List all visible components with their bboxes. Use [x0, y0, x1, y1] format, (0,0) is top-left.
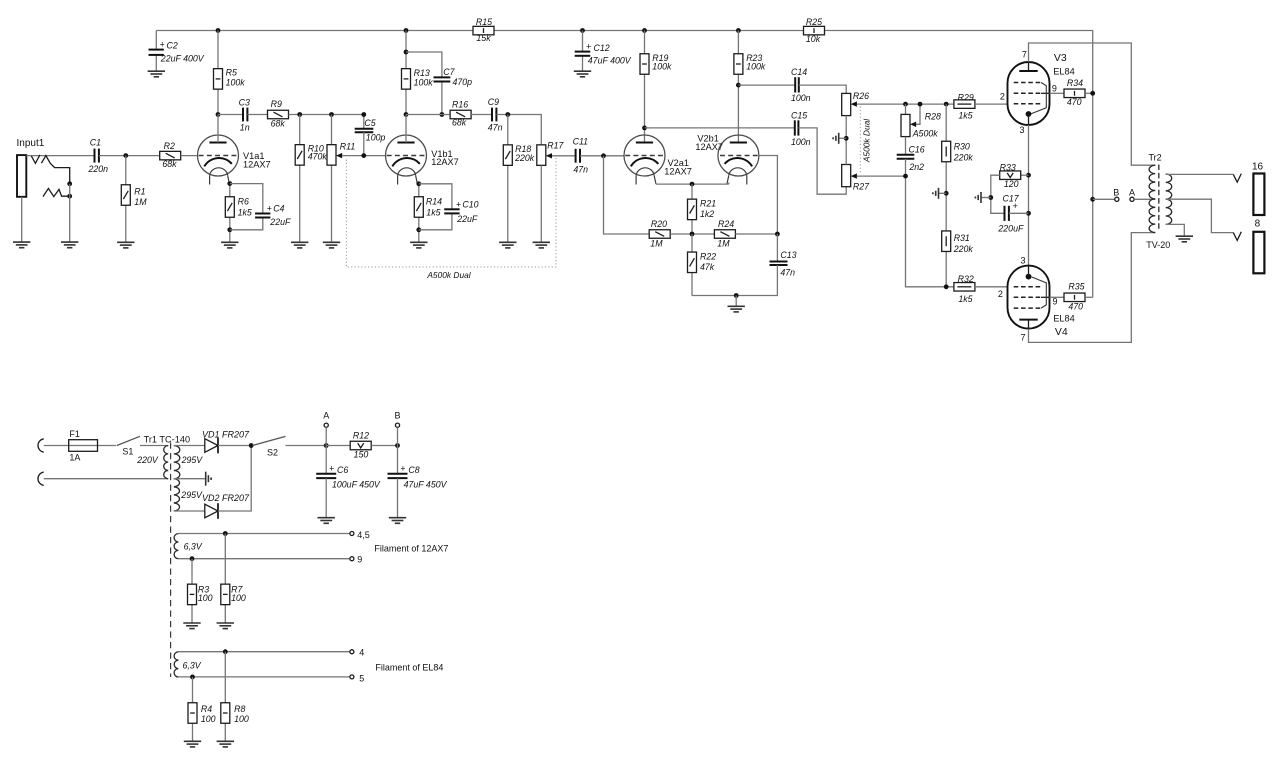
svg-text:A500k Dual: A500k Dual	[862, 118, 872, 163]
wire R13 bottom to R16	[406, 114, 450, 116]
node R7 tap	[223, 531, 228, 536]
svg-text:R27: R27	[853, 181, 870, 191]
node R3 tap	[190, 556, 195, 561]
wire input top	[26, 155, 94, 157]
resistor R15	[473, 26, 494, 34]
svg-text:B: B	[394, 411, 400, 421]
transformer Tr1 HV winding 295V upper	[174, 446, 180, 479]
node B+ rail R13 branch	[404, 28, 409, 33]
terminal B psu	[395, 423, 399, 427]
svg-text:V4: V4	[1055, 326, 1068, 338]
wire C3 left lead	[218, 114, 243, 116]
wire R11 vertical	[331, 115, 333, 243]
wire plug to fuse to S1	[44, 445, 117, 447]
ground under R14	[410, 242, 427, 248]
transformer Tr1 filament winding EL84	[174, 652, 178, 677]
terminal 5	[350, 675, 354, 679]
ground under R6	[221, 242, 238, 248]
wire R12 to B node	[371, 445, 397, 447]
wire common cathode bus	[656, 183, 729, 185]
ground under C8	[389, 518, 406, 524]
svg-text:220k: 220k	[953, 244, 974, 254]
svg-text:A: A	[323, 411, 329, 421]
terminal A psu	[324, 423, 328, 427]
wire R19 vertical to plate	[644, 31, 646, 143]
capacitor C16	[897, 154, 915, 156]
svg-text:+: +	[400, 464, 405, 474]
wiper arrow R27	[851, 173, 857, 178]
terminal 9	[350, 557, 354, 561]
resistor R35	[1064, 293, 1085, 302]
svg-text:R25: R25	[806, 17, 822, 27]
ground under R10	[291, 242, 308, 248]
svg-text:9: 9	[1053, 297, 1058, 307]
terminal 4	[350, 650, 354, 654]
transformer Tr1 primary winding 220V	[164, 446, 169, 479]
dotted gang link R11-R17 A500k Dual	[346, 157, 556, 267]
svg-text:7: 7	[1021, 332, 1026, 342]
wire secondary mid tap to 8 ohm output	[1166, 199, 1234, 232]
svg-text:47uF 450V: 47uF 450V	[404, 480, 448, 490]
fuse F1	[69, 440, 98, 452]
ground left of divider	[933, 188, 939, 199]
svg-text:7: 7	[1022, 49, 1027, 59]
wire R32 to V4 grid	[975, 286, 1008, 288]
dotted gang link R26-R27	[859, 107, 861, 175]
wire C14 to R26 top	[799, 85, 846, 93]
wire V3 plate to Tr2 primary top	[1029, 43, 1156, 165]
capacitor C17	[1004, 206, 1006, 221]
resistor R31	[942, 231, 951, 252]
svg-text:C15: C15	[791, 111, 807, 121]
wire rail to B terminal	[1093, 198, 1115, 200]
diode VD1	[205, 439, 218, 453]
terminal 4,5	[350, 532, 354, 536]
svg-text:9: 9	[1052, 84, 1057, 94]
svg-text:3: 3	[1020, 125, 1025, 135]
node jack dot lower	[67, 194, 72, 199]
svg-text:12AX7: 12AX7	[243, 159, 271, 169]
wire secondary bottom to ground	[1166, 224, 1185, 236]
svg-text:150: 150	[354, 449, 369, 459]
wire ground tap	[839, 137, 847, 139]
svg-text:68k: 68k	[162, 159, 177, 169]
svg-text:47n: 47n	[780, 268, 795, 278]
svg-text:22uF: 22uF	[269, 217, 291, 227]
node R4 tap	[190, 675, 195, 680]
capacitor C7	[434, 76, 451, 78]
wire R2 to V1a1 grid	[181, 155, 198, 157]
resistor R7	[221, 584, 230, 605]
node C16 / R27 wiper	[903, 174, 908, 179]
wire C4 loop	[230, 184, 263, 214]
resistor R4	[188, 703, 197, 724]
wire B+ rail right segment with drop to R35	[824, 31, 1092, 298]
svg-text:+: +	[160, 40, 165, 50]
node A junction	[324, 443, 329, 448]
svg-text:47uF 400V: 47uF 400V	[588, 56, 632, 66]
resistor R23	[734, 54, 743, 75]
svg-text:470p: 470p	[453, 77, 473, 87]
svg-text:R13: R13	[414, 68, 430, 78]
svg-text:C16: C16	[909, 145, 925, 155]
svg-text:1k5: 1k5	[426, 208, 440, 218]
switch S2	[253, 436, 286, 445]
wire R33 left to C17 left leg	[991, 175, 1005, 213]
wire B+ rail left segment	[156, 30, 473, 32]
wire R20 to node	[670, 233, 714, 235]
terminal B	[1115, 197, 1119, 201]
svg-text:+: +	[1013, 201, 1018, 211]
capacitor C9	[491, 108, 493, 122]
svg-text:R12: R12	[353, 431, 369, 441]
pentode V4 (mirrored)	[1008, 266, 1050, 329]
capacitor C6	[316, 473, 336, 475]
capacitor C4	[255, 213, 270, 215]
wire R21 vertical	[691, 184, 693, 234]
svg-text:12AX7: 12AX7	[695, 142, 723, 152]
svg-text:+: +	[586, 42, 591, 52]
svg-text:1n: 1n	[240, 122, 250, 132]
svg-text:2n2: 2n2	[908, 162, 924, 172]
transformer Tr1 core	[170, 443, 172, 678]
svg-text:R21: R21	[700, 198, 716, 208]
svg-text:R34: R34	[1067, 78, 1083, 88]
resistor R1	[121, 185, 130, 206]
wire R35 to rail end	[1085, 296, 1093, 298]
svg-text:B: B	[1113, 187, 1119, 197]
resistor R29	[954, 100, 975, 109]
svg-text:1M: 1M	[650, 239, 663, 249]
svg-text:100n: 100n	[791, 137, 811, 147]
svg-text:VD1 FR207: VD1 FR207	[202, 429, 250, 439]
ground under C2	[148, 71, 165, 77]
wire secondary top to 16 ohm output	[1166, 173, 1234, 175]
resistor R22	[688, 252, 697, 273]
pentode V3	[1008, 62, 1050, 125]
svg-text:1k5: 1k5	[958, 111, 972, 121]
wire C7 bottom loop	[441, 82, 443, 115]
resistor R24	[714, 230, 735, 239]
transformer Tr2 secondary winding	[1166, 174, 1172, 224]
capacitor C3	[242, 108, 244, 122]
wire V1a1 cathode to node	[229, 182, 231, 242]
capacitor C8	[388, 473, 408, 475]
node cathode V1a1	[227, 181, 232, 186]
svg-text:220uF: 220uF	[997, 224, 1024, 234]
svg-text:100p: 100p	[366, 133, 386, 143]
svg-text:R30: R30	[954, 142, 970, 152]
capacitor C10	[444, 208, 459, 210]
wire V3 cathode chain	[1028, 125, 1030, 266]
wire R23 vertical to plate	[737, 31, 739, 143]
switch S1	[117, 436, 140, 445]
svg-text:6,3V: 6,3V	[184, 542, 203, 552]
AC plug top	[38, 439, 44, 452]
svg-text:100k: 100k	[746, 62, 766, 72]
svg-text:295V: 295V	[181, 455, 204, 465]
svg-text:1k5: 1k5	[238, 207, 252, 217]
wire C3 to R9	[247, 114, 267, 116]
wire R28 top	[905, 104, 907, 114]
jack switch contact upper	[41, 156, 69, 184]
transformer Tr2 primary winding	[1149, 165, 1155, 232]
resistor R10	[295, 145, 304, 166]
resistor R14	[414, 197, 423, 218]
svg-text:2: 2	[1000, 91, 1005, 101]
resistor R32	[954, 283, 975, 292]
svg-text:R31: R31	[954, 233, 970, 243]
svg-text:R15: R15	[476, 17, 492, 27]
node cathode V1b1	[416, 181, 421, 186]
node R30 top	[944, 102, 949, 107]
wire R5 branch	[217, 31, 219, 115]
node C5 corner	[361, 112, 366, 117]
node R11 top	[329, 112, 334, 117]
svg-text:C6: C6	[337, 465, 348, 475]
node R20/R21/R22/R24	[690, 232, 695, 237]
svg-text:F1: F1	[69, 429, 80, 439]
svg-text:220k: 220k	[953, 152, 974, 162]
svg-text:C5: C5	[364, 118, 375, 128]
svg-text:470k: 470k	[308, 151, 328, 161]
svg-text:22uF 400V: 22uF 400V	[160, 54, 205, 64]
ground under C12	[574, 71, 591, 77]
wire stub to ground	[735, 296, 737, 307]
node R6 bottom	[227, 227, 232, 232]
svg-text:+: +	[329, 464, 334, 474]
node R28 top branch	[903, 102, 908, 107]
node R13 bottom / R16 / plate V1b1	[404, 112, 409, 117]
ground under R4	[184, 741, 201, 747]
ground right of HV tap	[206, 472, 211, 486]
transformer Tr1 filament winding 12AX7	[174, 534, 178, 559]
potentiometer R27	[842, 165, 851, 187]
resistor R12	[350, 441, 371, 450]
potentiometer R11	[327, 145, 336, 166]
svg-text:4,5: 4,5	[357, 530, 370, 540]
triode V1b1	[386, 135, 427, 185]
svg-text:8: 8	[1255, 219, 1261, 230]
terminal A	[1130, 197, 1134, 201]
ground left of pots	[833, 133, 839, 144]
svg-text:C10: C10	[462, 199, 478, 209]
wire VD2 up to node	[218, 446, 251, 512]
resistor R19	[640, 54, 649, 75]
svg-text:15k: 15k	[476, 33, 491, 43]
triode V2a1	[624, 135, 665, 185]
wire R4 vertical	[192, 677, 194, 741]
wire HV center tap	[174, 478, 206, 480]
ground under R1	[117, 242, 134, 248]
wire V1b1 cathode to node	[418, 182, 420, 242]
node R23 bottom / C14 branch	[736, 83, 741, 88]
node C17 tap	[1026, 211, 1031, 216]
svg-text:Filament of EL84: Filament of EL84	[375, 662, 443, 672]
node R23 top on rail	[736, 28, 741, 33]
svg-text:+: +	[456, 199, 461, 209]
wire cathode ground tap	[981, 197, 991, 199]
wire R8 vertical	[224, 652, 226, 742]
resistor R25	[804, 26, 825, 34]
wire divider ground tap	[939, 192, 947, 194]
wire C6 to ground	[325, 478, 327, 518]
wire C16 bottom	[905, 159, 907, 176]
resistor R34	[1064, 89, 1085, 98]
svg-text:R24: R24	[718, 219, 734, 229]
svg-text:C1: C1	[90, 137, 101, 147]
wire R17 wiper to C11	[552, 155, 576, 157]
svg-text:R17: R17	[547, 140, 564, 150]
svg-text:100k: 100k	[652, 62, 672, 72]
svg-text:TV-20: TV-20	[1146, 240, 1170, 250]
svg-text:Input1: Input1	[17, 138, 45, 149]
ground under Tr2 secondary	[1176, 236, 1193, 242]
capacitor C1	[94, 149, 96, 163]
svg-text:R1: R1	[134, 186, 145, 196]
wire VD1 to S2 node	[218, 445, 251, 447]
svg-text:R8: R8	[234, 704, 245, 714]
wire A terminal to node	[325, 427, 327, 473]
wire C13 vertical top	[776, 234, 778, 262]
resistor R6	[225, 197, 234, 218]
svg-text:6,3V: 6,3V	[183, 661, 202, 671]
node C11 out	[601, 153, 606, 158]
svg-text:EL84: EL84	[1053, 314, 1074, 324]
node R19 bottom / C15 branch	[642, 126, 647, 131]
svg-text:220k: 220k	[514, 153, 535, 163]
wire filament EL84 bottom	[178, 676, 350, 678]
wire R22 vertical	[691, 234, 693, 296]
svg-text:120: 120	[1004, 179, 1019, 189]
svg-text:1k2: 1k2	[700, 209, 714, 219]
wire R3 vertical	[191, 559, 193, 623]
transformer Tr2 core	[1158, 165, 1160, 232]
resistor R5	[214, 69, 223, 90]
svg-text:VD2 FR207: VD2 FR207	[202, 493, 250, 503]
svg-text:EL84: EL84	[1053, 67, 1074, 77]
wiper arrow R26	[851, 101, 857, 106]
svg-text:A500k: A500k	[912, 129, 939, 139]
svg-text:100: 100	[198, 593, 213, 603]
capacitor C11	[575, 149, 577, 163]
svg-text:2: 2	[998, 289, 1003, 299]
svg-text:3: 3	[1021, 255, 1026, 265]
svg-text:220V: 220V	[136, 455, 159, 465]
svg-text:1M: 1M	[134, 197, 147, 207]
resistor R33	[1021, 174, 1029, 176]
svg-text:R26: R26	[853, 91, 869, 101]
wire C17 right to cathode line	[1009, 212, 1029, 214]
wire HV top to VD1	[174, 445, 205, 447]
ground under R17	[533, 242, 550, 248]
node C7 top branch	[404, 50, 409, 55]
wire B terminal to node	[397, 427, 399, 473]
node B+ at R5 top	[216, 28, 221, 33]
svg-text:Tr1 TC-140: Tr1 TC-140	[144, 434, 190, 444]
node R14 bottom	[416, 227, 421, 232]
wire filament 12AX7 top	[178, 533, 350, 535]
node R28 wiper junction	[918, 102, 923, 107]
wire R30-R31 chain	[945, 104, 947, 287]
svg-text:R35: R35	[1068, 282, 1084, 292]
svg-text:R32: R32	[958, 274, 974, 284]
node C12 branch on rail	[580, 28, 585, 33]
wire R7 vertical	[224, 534, 226, 624]
node R1 junction	[123, 153, 128, 158]
svg-text:470: 470	[1068, 302, 1083, 312]
capacitor C2	[155, 31, 157, 50]
wire C5 bottom to wiper line	[363, 132, 365, 155]
wire C7 top loop	[406, 52, 442, 77]
node cathode bus / R21	[690, 182, 695, 187]
svg-text:47n: 47n	[573, 165, 588, 175]
svg-text:R28: R28	[925, 111, 941, 121]
svg-text:470: 470	[1067, 97, 1082, 107]
svg-text:100n: 100n	[791, 93, 811, 103]
node rectifier output	[249, 443, 254, 448]
node cathode network ground tap	[988, 195, 993, 200]
resistor R13	[402, 69, 411, 90]
wire R28 bottom to C16	[905, 137, 907, 155]
node R19 top on rail	[642, 28, 647, 33]
svg-text:R9: R9	[271, 99, 282, 109]
svg-text:47k: 47k	[700, 262, 715, 272]
wire R17 bottom to ground	[540, 165, 542, 242]
svg-text:4: 4	[359, 648, 364, 658]
svg-text:100k: 100k	[414, 77, 434, 87]
connector chevron 16 ohm	[1233, 174, 1241, 183]
wire C10 loop	[419, 184, 452, 210]
node R34 / rail	[1090, 91, 1095, 96]
svg-text:R20: R20	[651, 219, 667, 229]
wire R34 to rail	[1085, 92, 1093, 94]
svg-text:R29: R29	[958, 92, 974, 102]
resistor R20	[649, 230, 670, 239]
svg-text:A: A	[1129, 187, 1135, 197]
svg-text:A500k Dual: A500k Dual	[426, 270, 471, 280]
node R10 top	[297, 112, 302, 117]
wire R13 branch from rail	[405, 31, 407, 115]
svg-text:C14: C14	[791, 67, 807, 77]
capacitor C15	[645, 127, 795, 129]
wire V2a1 grid return vertical	[604, 156, 650, 234]
wire A terminal to Tr2 center tap	[1134, 198, 1155, 200]
diode VD2	[205, 504, 218, 518]
svg-text:C13: C13	[780, 250, 796, 260]
resistor R9	[268, 110, 289, 119]
node C5 / wiper	[361, 153, 366, 158]
svg-text:68k: 68k	[452, 118, 467, 128]
svg-text:R11: R11	[340, 142, 356, 152]
ground left of C17	[975, 192, 981, 203]
wire R9 to C5 corner	[289, 115, 364, 129]
jack switch contact lower	[43, 188, 70, 196]
triode V1a1	[198, 135, 239, 185]
svg-text:100: 100	[201, 714, 216, 724]
resistor R18	[503, 145, 512, 166]
wiper arrow R11	[336, 153, 342, 158]
svg-text:C12: C12	[594, 43, 610, 53]
potentiometer R26	[842, 93, 851, 115]
wire R26 wiper line	[857, 103, 954, 105]
wire HV bottom to VD2	[174, 510, 205, 512]
wire S1 to Tr1 primary	[140, 445, 168, 447]
node ground bus	[734, 293, 739, 298]
svg-text:C7: C7	[443, 67, 455, 77]
wire S2 to A node	[286, 445, 327, 447]
svg-text:68k: 68k	[271, 118, 286, 128]
